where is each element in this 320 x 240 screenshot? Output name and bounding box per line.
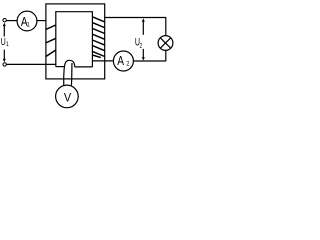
- svg-text:V: V: [64, 91, 72, 105]
- svg-text:1: 1: [6, 41, 9, 48]
- svg-text:2: 2: [140, 43, 143, 50]
- svg-text:1: 1: [27, 21, 31, 29]
- svg-text:2: 2: [126, 60, 130, 68]
- svg-text:U: U: [1, 36, 6, 48]
- svg-text:A: A: [117, 54, 124, 68]
